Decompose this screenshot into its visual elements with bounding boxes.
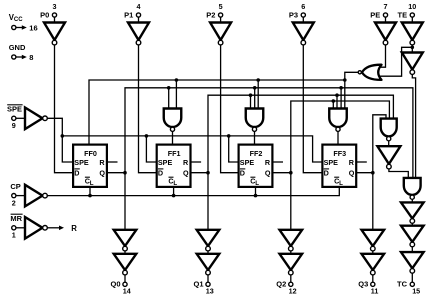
wire SPE buffer to bus	[47, 118, 73, 162]
inverter buffer P3	[293, 23, 314, 45]
wire bus1 drop to FF1 NAND	[175, 80, 177, 109]
svg-text:R: R	[99, 158, 105, 167]
wire bus PE-TE enable (to FF0 top)	[89, 80, 345, 144]
svg-text:P1: P1	[124, 11, 133, 20]
svg-text:CP: CP	[10, 182, 20, 191]
net label R	[71, 224, 77, 233]
wire bus Q0 feedback	[125, 88, 413, 179]
wire FF1 Q output	[191, 172, 208, 174]
svg-text:SPE: SPE	[158, 158, 173, 167]
AND gate G7 (TC)	[404, 178, 421, 199]
ground pin GND to pin 8	[9, 43, 34, 62]
svg-text:3: 3	[53, 2, 57, 11]
junction Q2 node	[289, 171, 293, 175]
wire G7 to TC inverter 1	[411, 200, 413, 203]
svg-text:5: 5	[219, 2, 223, 11]
inverter buffer PE	[375, 23, 396, 45]
wire TE2 inverter output down right side	[412, 74, 415, 178]
svg-text:R: R	[71, 224, 77, 233]
output terminal Q3 pin 11	[358, 280, 378, 296]
input terminal P1 pin 4	[124, 2, 140, 22]
output inverter Q0 second	[114, 254, 137, 275]
wire NAND output to FF3	[337, 132, 339, 144]
svg-text:L: L	[173, 180, 177, 187]
input terminal SPE pin 9	[7, 104, 25, 130]
junction bus4 to FF3 NAND	[332, 99, 336, 103]
wire bus4 drop to FF3 NAND	[332, 101, 334, 109]
svg-text:D: D	[158, 168, 163, 177]
wire P3 to FF3 D input	[303, 45, 322, 173]
svg-text:Q2: Q2	[276, 280, 286, 289]
wire bus Q2 feedback	[291, 101, 390, 173]
wire Q2 to terminal	[290, 275, 292, 282]
svg-text:R: R	[183, 158, 189, 167]
svg-text:TC: TC	[397, 280, 408, 289]
output terminal Q2 pin 12	[276, 280, 296, 296]
svg-text:14: 14	[123, 287, 131, 296]
output terminal TC pin 15	[397, 280, 420, 296]
wire SPE drop to FF1	[146, 136, 156, 162]
output inverter Q0 first	[114, 230, 137, 251]
output inverter Q1 second	[197, 254, 220, 275]
junction SPE bus start	[61, 134, 65, 138]
junction bus2 to FF3 NAND	[339, 86, 343, 90]
svg-text:PE: PE	[370, 11, 380, 20]
junction bus3 to FF2 NAND	[249, 93, 253, 97]
flip-flop FF3	[322, 145, 356, 187]
wire G6 output to G7	[389, 169, 408, 179]
wire CL drop FF1	[173, 188, 175, 196]
svg-text:2: 2	[12, 199, 16, 208]
inverter buffer TE	[402, 23, 423, 45]
inverter TC1	[401, 202, 424, 223]
svg-text:1: 1	[12, 231, 16, 240]
svg-text:7: 7	[384, 2, 388, 11]
svg-text:12: 12	[289, 287, 297, 296]
junction Q3 node	[371, 171, 375, 175]
inverter buffer P0	[44, 23, 65, 45]
svg-text:16: 16	[29, 24, 37, 33]
output inverter Q2 first	[280, 230, 303, 251]
wire bus2 drop to FF2 NAND	[254, 88, 256, 109]
wire Q3 feedback to NAND G5	[373, 115, 386, 173]
wire R stub FF0	[107, 161, 118, 163]
input terminal P2 pin 5	[206, 2, 222, 22]
wire between Q0 inverters	[124, 251, 126, 254]
svg-text:Q: Q	[265, 168, 271, 177]
junction SPE bus to FF2	[227, 134, 231, 138]
svg-text:9: 9	[12, 121, 16, 130]
svg-text:L: L	[255, 180, 259, 187]
wire bus1 drop to FF2 NAND	[257, 80, 259, 109]
power pin VCC to pin 16	[9, 13, 38, 33]
svg-text:SPE: SPE	[240, 158, 255, 167]
input terminal MR pin 1	[10, 214, 25, 240]
svg-text:SPE: SPE	[74, 158, 89, 167]
wire R stub FF1	[191, 161, 202, 163]
svg-text:D: D	[324, 168, 329, 177]
wire R stub FF2	[273, 161, 284, 163]
wire SPE drop to FF2	[229, 136, 239, 162]
inverter TC3	[401, 252, 424, 273]
wire TE buffer to second inverter	[411, 45, 413, 52]
output terminal Q0 pin 14	[110, 280, 130, 296]
wire TE branch to NOR gate input	[378, 47, 412, 76]
output terminal Q1 pin 13	[193, 280, 213, 296]
inverter TE second stage	[402, 53, 423, 75]
svg-text:6: 6	[301, 2, 305, 11]
output inverter Q3 first	[362, 230, 385, 251]
junction CP bus at FF0	[88, 194, 92, 198]
wire Q0 to terminal	[124, 275, 126, 282]
junction CP bus at FF2	[254, 194, 258, 198]
svg-text:TE: TE	[398, 11, 408, 20]
flip-flop FF1	[157, 145, 191, 187]
wire MR buffer to R net arrow	[47, 226, 64, 231]
junction bus3 to FF3 NAND	[335, 93, 339, 97]
output inverter Q3 second	[362, 254, 385, 275]
svg-text:Q: Q	[183, 168, 189, 177]
inverter G6	[377, 146, 400, 169]
wire TC1 to TC2	[411, 223, 413, 225]
wire G5 to G6	[388, 141, 390, 146]
svg-text:13: 13	[206, 287, 214, 296]
inverter buffer P1	[128, 23, 149, 45]
wire between Q3 inverters	[372, 251, 374, 254]
svg-text:L: L	[90, 180, 94, 187]
wire Q3 down to output inverters	[372, 173, 374, 230]
svg-text:L: L	[339, 180, 343, 187]
svg-text:Q0: Q0	[110, 280, 120, 289]
svg-text:R: R	[349, 158, 355, 167]
svg-text:R: R	[265, 158, 271, 167]
wire between Q2 inverters	[290, 251, 292, 254]
junction bus2 to FF1 NAND	[167, 86, 171, 90]
wire R stub FF3	[356, 161, 367, 163]
junction bus1 to FF1 NAND	[175, 78, 179, 82]
wire Q2 down to output inverters	[290, 173, 292, 230]
svg-text:10: 10	[408, 2, 416, 11]
wire CL drop FF2	[255, 188, 257, 196]
junction Q0 node	[123, 171, 127, 175]
inverter TC2	[401, 226, 424, 247]
svg-text:GND: GND	[9, 43, 26, 52]
wire TC2 to TC3	[411, 247, 413, 252]
wire bus Q1 feedback	[208, 95, 393, 173]
wire between Q1 inverters	[207, 251, 209, 254]
NAND gate above FF2	[246, 109, 264, 132]
wire Q1 down to output inverters	[207, 173, 209, 230]
svg-text:SPE: SPE	[324, 158, 339, 167]
junction bus1 to FF2 NAND	[256, 78, 260, 82]
wire Q1 to terminal	[207, 275, 209, 282]
wire Q0 down to output inverters	[124, 173, 126, 230]
svg-text:P2: P2	[206, 11, 215, 20]
input terminal P0 pin 3	[40, 2, 56, 22]
svg-text:P0: P0	[40, 11, 49, 20]
wire FF2 Q output	[273, 172, 291, 174]
svg-text:D: D	[240, 168, 245, 177]
junction bus2 to FF2 NAND	[253, 86, 257, 90]
wire P2 to FF2 D input	[221, 45, 239, 173]
junction CP bus at FF1	[172, 194, 176, 198]
svg-text:4: 4	[137, 2, 141, 11]
wire NAND output to FF2	[254, 132, 256, 144]
wire P0 to FF0 D input	[55, 45, 74, 173]
buffer MR	[25, 217, 47, 239]
svg-text:Q: Q	[349, 168, 355, 177]
svg-text:MR: MR	[10, 214, 22, 223]
wire PE buffer to NOR gate input	[378, 45, 386, 67]
svg-text:15: 15	[412, 287, 420, 296]
wire TC3 to terminal	[411, 273, 413, 282]
wire SPE bus	[62, 136, 322, 162]
svg-text:Q: Q	[99, 168, 105, 177]
wire Q3 to terminal	[372, 275, 374, 282]
input terminal PE pin 7	[370, 2, 387, 22]
junction Q1 node	[206, 171, 210, 175]
svg-text:SPE: SPE	[7, 104, 22, 113]
wire G4 output to bus and FF3 NAND	[345, 72, 358, 108]
wire bus2 drop to FF1 NAND	[168, 88, 170, 109]
svg-text:8: 8	[29, 53, 33, 62]
flip-flop FF0	[73, 145, 107, 187]
wire P1 to FF1 D input	[139, 45, 157, 173]
buffer CP	[25, 185, 47, 207]
svg-text:D: D	[74, 168, 79, 177]
junction SPE bus to FF1	[145, 134, 149, 138]
output inverter Q1 first	[197, 230, 220, 251]
input terminal CP pin 2	[10, 182, 25, 208]
wire NAND output to FF1	[172, 132, 174, 144]
svg-text:Q3: Q3	[358, 280, 368, 289]
wire FF3 Q output	[356, 172, 373, 174]
flip-flop FF2	[239, 145, 273, 187]
NAND gate above FF3	[329, 109, 347, 132]
junction bus1 at OR drop	[343, 78, 347, 82]
NOR gate G4 (PE+TE)	[358, 65, 381, 80]
wire FF0 Q output	[107, 172, 125, 174]
wire CP clock bus	[47, 188, 340, 196]
svg-text:P3: P3	[289, 11, 298, 20]
input terminal P3 pin 6	[289, 2, 305, 22]
NAND gate G5	[381, 119, 397, 141]
NAND gate above FF1	[164, 109, 182, 132]
svg-text:11: 11	[371, 287, 379, 296]
junction TE branch	[411, 46, 415, 50]
input terminal TE pin 10	[398, 2, 417, 22]
wire bus3 drop to FF3 NAND	[336, 95, 338, 108]
wire bus3 drop to FF2 NAND	[250, 95, 252, 108]
wire CL drop FF0	[89, 188, 91, 196]
inverter buffer P2	[210, 23, 231, 45]
buffer SPE	[25, 108, 47, 130]
svg-text:Q1: Q1	[193, 280, 203, 289]
wire bus2 drop to FF3 NAND	[340, 88, 342, 109]
output inverter Q2 second	[280, 254, 303, 275]
